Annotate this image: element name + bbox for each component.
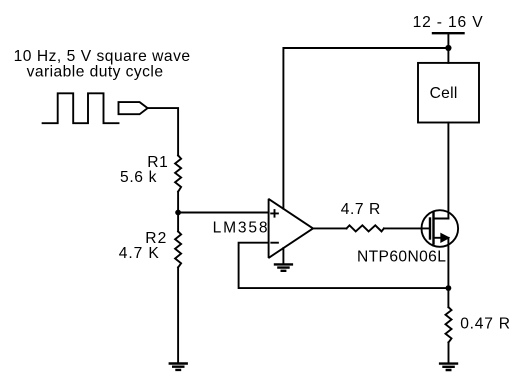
svg-text:variable duty cycle: variable duty cycle <box>27 64 163 81</box>
svg-text:4.7 K: 4.7 K <box>119 245 160 262</box>
svg-text:5.6 k: 5.6 k <box>120 169 157 186</box>
svg-text:NTP60N06L: NTP60N06L <box>357 249 446 266</box>
svg-text:10 Hz, 5 V square wave: 10 Hz, 5 V square wave <box>14 48 191 65</box>
svg-text:4.7 R: 4.7 R <box>341 201 381 218</box>
svg-text:0.47 R: 0.47 R <box>460 316 510 333</box>
svg-text:Cell: Cell <box>430 85 458 102</box>
svg-text:LM358: LM358 <box>213 219 268 236</box>
svg-text:12 - 16 V: 12 - 16 V <box>413 14 484 31</box>
